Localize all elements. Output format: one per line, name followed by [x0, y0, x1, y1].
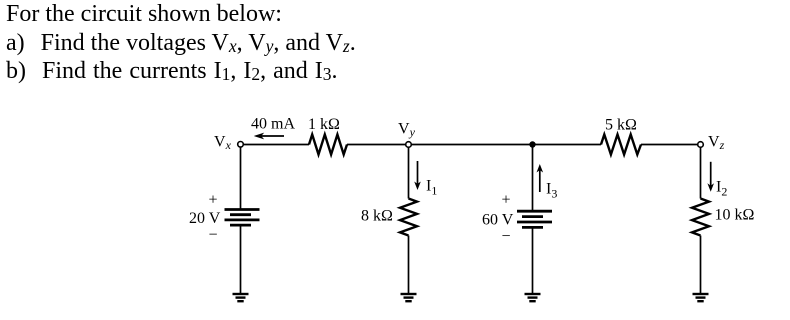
- resistor 8 kOhm: [400, 199, 417, 236]
- node Vz: [698, 142, 704, 148]
- current arrow I3: [537, 164, 558, 201]
- battery V1 20 V: [225, 210, 260, 226]
- node Vy: [406, 142, 412, 148]
- svg-text:Vx: Vx: [214, 134, 232, 153]
- wire branch3 down from junction: [532, 145, 534, 211]
- wire branch1 down from Vx: [240, 147, 242, 209]
- battery V2 60 V: [517, 211, 552, 227]
- ground G4: [693, 294, 709, 301]
- svg-text:Vz: Vz: [708, 134, 725, 153]
- node Vx: [238, 142, 244, 148]
- wire top: 1k resistor to Vy: [347, 144, 405, 146]
- svg-text:10 kΩ: 10 kΩ: [715, 206, 755, 223]
- wire top: Vx to 1k resistor: [244, 144, 309, 146]
- ground G3: [525, 294, 541, 301]
- svg-text:5 kΩ: 5 kΩ: [605, 117, 637, 134]
- wire branch1 battery to ground: [240, 225, 242, 294]
- resistor 10 kOhm: [692, 199, 709, 236]
- resistor R 1 kOhm: [309, 135, 347, 155]
- current arrow 40 mA: [251, 116, 295, 140]
- junction node (dot): [529, 141, 535, 147]
- svg-text:+: +: [502, 192, 511, 209]
- svg-text:Vy: Vy: [398, 121, 416, 140]
- svg-text:−: −: [502, 228, 511, 245]
- svg-text:I1: I1: [426, 178, 437, 198]
- problem statement text: [6, 0, 282, 28]
- wire branch4 resistor to ground: [700, 236, 702, 295]
- svg-text:+: +: [209, 191, 218, 208]
- wire branch2 down from Vy: [408, 148, 410, 199]
- wire top: Vy to junction: [412, 144, 533, 146]
- current arrow I1: [414, 161, 437, 198]
- wire branch4 down from Vz: [700, 148, 702, 199]
- svg-text:40 mA: 40 mA: [251, 116, 295, 133]
- resistor 5 kOhm: [601, 135, 641, 155]
- svg-text:I2: I2: [716, 179, 727, 199]
- svg-text:60 V: 60 V: [482, 212, 514, 229]
- ground G1: [233, 294, 249, 301]
- svg-text:8 kΩ: 8 kΩ: [361, 208, 393, 225]
- wire top: junction to 5k resistor: [533, 144, 602, 146]
- wire top: 5k resistor to Vz: [641, 144, 697, 146]
- wire branch3 battery to ground: [532, 227, 534, 294]
- ground G2: [401, 294, 417, 301]
- svg-text:1 kΩ: 1 kΩ: [308, 116, 340, 133]
- current arrow I2: [707, 162, 727, 199]
- wire branch2 resistor to ground: [408, 236, 410, 295]
- svg-text:−: −: [209, 227, 218, 244]
- svg-text:I3: I3: [546, 181, 557, 201]
- svg-text:20 V: 20 V: [189, 210, 221, 227]
